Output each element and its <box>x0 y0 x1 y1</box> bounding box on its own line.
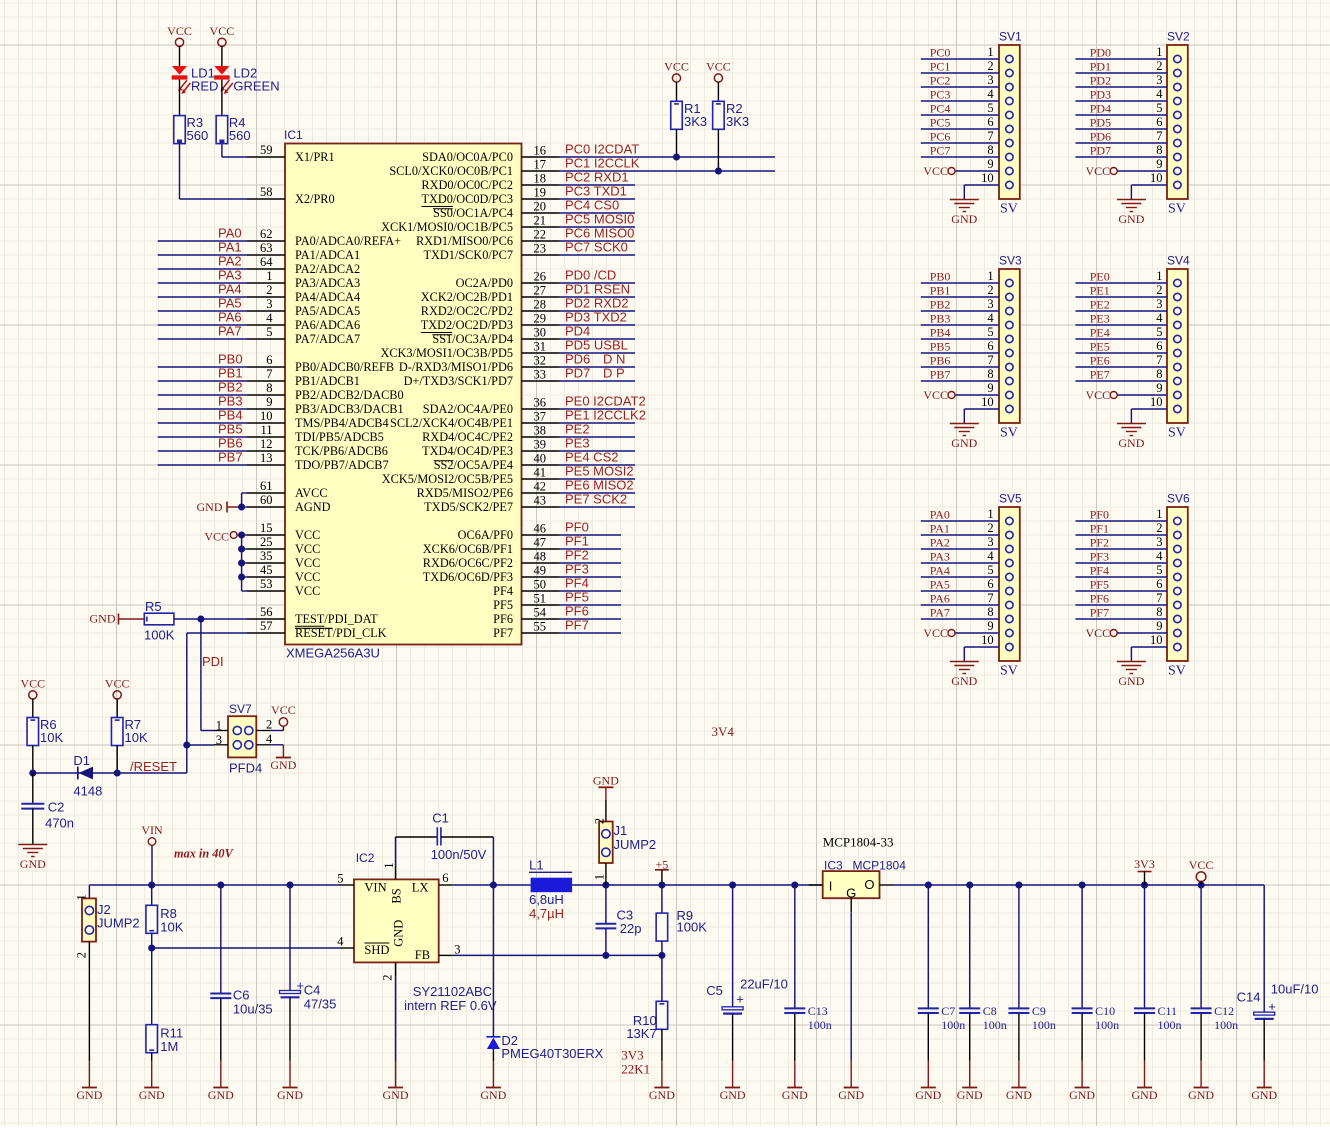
svg-text:GND: GND <box>1188 1088 1214 1102</box>
svg-text:2: 2 <box>266 283 272 297</box>
junction C10 <box>1079 881 1086 888</box>
junction R2/PC1 <box>715 167 722 174</box>
svg-text:10: 10 <box>1150 171 1163 185</box>
svg-text:8: 8 <box>987 605 993 619</box>
SV1 pin 4 PC3 <box>921 87 1013 105</box>
IC1 left pins and names <box>247 143 404 640</box>
svg-text:VIN: VIN <box>364 881 386 895</box>
svg-text:1: 1 <box>266 269 272 283</box>
svg-text:3: 3 <box>1156 297 1162 311</box>
svg-text:9: 9 <box>987 381 993 395</box>
svg-text:PC6 MISO0: PC6 MISO0 <box>565 226 634 241</box>
resistor R9 <box>656 885 707 955</box>
svg-text:PE3: PE3 <box>1090 312 1110 326</box>
svg-text:PD7: PD7 <box>1090 144 1111 158</box>
svg-text:3V4: 3V4 <box>712 724 735 739</box>
svg-text:PF5: PF5 <box>1090 578 1109 592</box>
svg-text:PA2: PA2 <box>218 254 242 269</box>
net label 3V4 <box>712 724 735 739</box>
svg-text:PB3: PB3 <box>930 312 951 326</box>
svg-text:3: 3 <box>1156 73 1162 87</box>
resistor R8 <box>146 885 184 948</box>
svg-text:5: 5 <box>1156 101 1162 115</box>
svg-text:PC3: PC3 <box>930 88 951 102</box>
svg-text:10: 10 <box>260 409 273 423</box>
svg-text:C5: C5 <box>706 983 723 998</box>
svg-text:GND: GND <box>1118 436 1144 450</box>
svg-text:22uF/10: 22uF/10 <box>740 977 788 992</box>
junction R6 reset <box>29 769 36 776</box>
SV2 pin 6 PD5 <box>1076 115 1182 133</box>
VCC supply R6 <box>20 677 45 718</box>
svg-text:3: 3 <box>987 535 993 549</box>
svg-text:GND: GND <box>139 1088 165 1102</box>
svg-text:PD2: PD2 <box>1090 74 1111 88</box>
svg-text:2: 2 <box>987 59 993 73</box>
svg-text:PF2: PF2 <box>1090 536 1109 550</box>
svg-text:100n: 100n <box>1158 1018 1182 1032</box>
VCC supply R7 <box>105 677 130 718</box>
svg-text:VCC: VCC <box>295 528 320 542</box>
SV1 pin 2 PC1 <box>921 59 1013 77</box>
svg-text:C6: C6 <box>233 988 250 1003</box>
svg-text:PF6: PF6 <box>493 612 513 626</box>
SV6 pin 8 PF7 <box>1076 605 1182 623</box>
svg-text:41: 41 <box>534 466 547 480</box>
svg-text:PE3: PE3 <box>565 436 590 451</box>
svg-text:PD6: PD6 <box>1090 130 1111 144</box>
ground C11 <box>1132 1088 1158 1103</box>
svg-text:SV: SV <box>1168 664 1186 679</box>
svg-text:3K3: 3K3 <box>684 114 707 129</box>
svg-text:10: 10 <box>981 633 994 647</box>
svg-text:SY21102ABC: SY21102ABC <box>413 984 492 999</box>
svg-text:1: 1 <box>1156 507 1162 521</box>
svg-text:PD0 /CD: PD0 /CD <box>565 268 616 283</box>
svg-text:D1: D1 <box>73 753 90 768</box>
SV2 pin 4 PD3 <box>1076 87 1182 105</box>
ground C13 <box>782 1088 808 1103</box>
svg-text:C2: C2 <box>48 800 65 815</box>
SV4 pin 8 PE7 <box>1076 367 1182 385</box>
svg-text:PA5/ADCA5: PA5/ADCA5 <box>295 304 360 318</box>
SV5 pin 6 PA5 <box>921 577 1013 595</box>
svg-text:36: 36 <box>534 396 547 410</box>
svg-text:40: 40 <box>534 452 547 466</box>
svg-text:1: 1 <box>216 719 222 733</box>
svg-text:3V3: 3V3 <box>621 1048 643 1063</box>
svg-text:GND: GND <box>649 1088 675 1102</box>
svg-text:PC1: PC1 <box>930 60 951 74</box>
svg-text:PC4 CS0: PC4 CS0 <box>565 198 619 213</box>
svg-text:47: 47 <box>534 536 547 550</box>
SV1 pin 6 PC5 <box>921 115 1013 133</box>
svg-text:33: 33 <box>534 368 547 382</box>
ground SV5 <box>950 662 979 689</box>
VCC supply SV6 <box>1086 619 1182 640</box>
svg-text:JUMP2: JUMP2 <box>97 916 140 931</box>
svg-text:GND: GND <box>951 436 977 450</box>
svg-text:PA0: PA0 <box>218 226 242 241</box>
svg-text:1: 1 <box>382 863 396 869</box>
IC1 refdes label <box>284 128 303 142</box>
svg-text:18: 18 <box>534 172 547 186</box>
svg-text:IC1: IC1 <box>284 128 303 142</box>
SV4 pin 4 PE3 <box>1076 311 1182 329</box>
svg-text:7: 7 <box>1156 591 1162 605</box>
svg-text:VCC: VCC <box>923 626 948 640</box>
svg-text:5: 5 <box>987 325 993 339</box>
svg-text:GND: GND <box>1069 1088 1095 1102</box>
svg-text:GND: GND <box>1118 212 1144 226</box>
svg-text:56: 56 <box>260 605 273 619</box>
svg-text:MCP1804-33: MCP1804-33 <box>823 835 894 850</box>
capacitor C14 10uF/10 <box>1237 885 1319 1088</box>
IC2 pin5 <box>337 872 354 886</box>
svg-text:10: 10 <box>1150 395 1163 409</box>
svg-text:GND: GND <box>593 774 619 788</box>
svg-text:PA6: PA6 <box>218 310 242 325</box>
svg-text:GND: GND <box>720 1088 746 1102</box>
svg-text:C8: C8 <box>983 1004 997 1018</box>
svg-text:62: 62 <box>260 227 273 241</box>
junction VIN/R8 <box>148 881 155 888</box>
svg-text:TXD5/SCK2/PE7: TXD5/SCK2/PE7 <box>424 500 513 514</box>
svg-text:PF5: PF5 <box>493 598 513 612</box>
svg-text:GND: GND <box>270 758 296 772</box>
svg-text:GND: GND <box>1251 1088 1277 1102</box>
svg-text:PA6: PA6 <box>930 592 950 606</box>
svg-text:8: 8 <box>266 381 272 395</box>
svg-text:SS1/OC3A/PD4: SS1/OC3A/PD4 <box>432 332 513 346</box>
capacitor C9 100n <box>1008 885 1056 1088</box>
junction R9/FB <box>658 952 665 959</box>
svg-text:PB2: PB2 <box>218 380 243 395</box>
resistor R10 <box>626 955 667 1087</box>
capacitor C13 100n <box>784 885 832 1088</box>
wire R4 to pin <box>222 144 247 157</box>
svg-text:SV6: SV6 <box>1167 492 1190 506</box>
IC1 XMEGA256A3U body <box>285 144 522 645</box>
svg-text:PE2: PE2 <box>565 422 590 437</box>
ground C14 <box>1251 1088 1277 1103</box>
svg-text:GND: GND <box>1006 1088 1032 1102</box>
ground R11 <box>139 1088 165 1103</box>
jumper J2 JUMP2 <box>74 894 139 1087</box>
TXD2 underline <box>421 332 452 334</box>
svg-text:max in 40V: max in 40V <box>174 847 235 861</box>
svg-text:SDA0/OC0A/PC0: SDA0/OC0A/PC0 <box>422 150 513 164</box>
svg-text:10K: 10K <box>40 730 63 745</box>
SS0 overline <box>433 208 453 210</box>
svg-text:1: 1 <box>75 894 89 900</box>
svg-text:21: 21 <box>534 214 547 228</box>
svg-text:30: 30 <box>534 326 547 340</box>
svg-text:PD2 RXD2: PD2 RXD2 <box>565 296 629 311</box>
PA/PB net wires and labels <box>158 226 247 466</box>
svg-text:4: 4 <box>266 311 273 325</box>
svg-text:PD4: PD4 <box>1090 102 1111 116</box>
svg-text:PE4 CS2: PE4 CS2 <box>565 450 618 465</box>
svg-text:GREEN: GREEN <box>233 79 279 94</box>
ground SV4 <box>1117 424 1146 451</box>
svg-text:PA4: PA4 <box>930 564 950 578</box>
svg-text:IC2: IC2 <box>356 851 375 865</box>
VCC supply SV7 <box>271 703 296 731</box>
svg-text:1: 1 <box>593 874 607 880</box>
svg-text:23: 23 <box>534 242 547 256</box>
VCC supply R2 <box>706 60 731 102</box>
svg-text:4: 4 <box>337 935 344 949</box>
svg-text:GND: GND <box>782 1088 808 1102</box>
3V3 supply <box>1134 857 1155 885</box>
svg-text:PB1/ADCB1: PB1/ADCB1 <box>295 374 360 388</box>
SV2 pin 1 PD0 <box>1076 45 1182 63</box>
svg-text:PA0: PA0 <box>930 508 950 522</box>
svg-text:VCC: VCC <box>1189 858 1214 872</box>
svg-text:PC6: PC6 <box>930 130 951 144</box>
svg-text:8: 8 <box>1156 143 1162 157</box>
svg-text:47/35: 47/35 <box>304 997 337 1012</box>
junction C12 <box>1198 881 1205 888</box>
resistor R5 <box>144 599 175 643</box>
svg-text:6: 6 <box>266 353 272 367</box>
svg-text:GND: GND <box>208 1088 234 1102</box>
IC3 name MCP1804-33 <box>823 835 894 850</box>
svg-text:4: 4 <box>1156 87 1163 101</box>
SV6 pin 3 PF2 <box>1076 535 1182 553</box>
svg-text:38: 38 <box>534 424 547 438</box>
junction R7 reset <box>114 769 121 776</box>
svg-text:20: 20 <box>534 200 547 214</box>
svg-text:RXD1/MISO0/PC6: RXD1/MISO0/PC6 <box>416 234 513 248</box>
junction L1/J1 <box>602 881 609 888</box>
IC2 pin2 GND <box>380 962 395 1087</box>
capacitor C2 470n <box>21 773 74 844</box>
svg-text:1: 1 <box>1156 269 1162 283</box>
connector SV5 <box>999 492 1022 679</box>
SV3 pin 4 PB3 <box>921 311 1013 329</box>
svg-text:GND: GND <box>392 920 406 947</box>
svg-text:GND: GND <box>76 1088 102 1102</box>
connector SV7 PFD4 <box>214 702 273 776</box>
svg-text:7: 7 <box>266 367 272 381</box>
svg-text:TDO/PB7/ADCB7: TDO/PB7/ADCB7 <box>295 458 389 472</box>
svg-text:C7: C7 <box>941 1004 955 1018</box>
ground R10 <box>649 1088 675 1103</box>
SV4 pin 7 PE6 <box>1076 353 1182 371</box>
junction TEST/PDI <box>197 615 204 622</box>
svg-text:GND: GND <box>20 857 46 871</box>
svg-text:PD3: PD3 <box>1090 88 1111 102</box>
svg-text:VCC: VCC <box>295 556 320 570</box>
svg-text:PE0: PE0 <box>1090 270 1110 284</box>
ground C9 <box>1006 1088 1032 1103</box>
svg-text:FB: FB <box>415 948 430 962</box>
svg-text:SCL2/XCK4/OC4B/PE1: SCL2/XCK4/OC4B/PE1 <box>390 416 513 430</box>
svg-text:8: 8 <box>1156 605 1162 619</box>
SV3 pin 5 PB4 <box>921 325 1013 343</box>
svg-text:XMEGA256A3U: XMEGA256A3U <box>286 646 380 661</box>
SV5 pin 2 PA1 <box>921 521 1013 539</box>
svg-text:8: 8 <box>1156 367 1162 381</box>
svg-text:PA1: PA1 <box>218 240 242 255</box>
svg-text:42: 42 <box>534 480 547 494</box>
svg-text:43: 43 <box>534 494 547 508</box>
svg-text:PA0/ADCA0/REFA+: PA0/ADCA0/REFA+ <box>295 234 401 248</box>
connector SV1 <box>999 30 1022 217</box>
svg-text:31: 31 <box>534 340 547 354</box>
svg-text:13: 13 <box>260 451 273 465</box>
svg-text:GND: GND <box>1132 1088 1158 1102</box>
RESET overline <box>295 627 333 629</box>
svg-text:2: 2 <box>266 718 272 732</box>
svg-text:PA7/ADCA7: PA7/ADCA7 <box>295 332 360 346</box>
svg-text:C10: C10 <box>1095 1004 1115 1018</box>
svg-text:VCC: VCC <box>923 388 948 402</box>
svg-text:6: 6 <box>442 871 448 885</box>
svg-text:50: 50 <box>534 578 547 592</box>
junction R1/PC0 <box>673 153 680 160</box>
svg-text:PF4: PF4 <box>1090 564 1109 578</box>
svg-text:2: 2 <box>987 521 993 535</box>
diode D2 PMEG40T30ERX <box>486 885 603 1088</box>
SV4 pin 10 wire <box>1131 395 1181 424</box>
capacitor C10 100n <box>1072 885 1120 1088</box>
SV2 pin 7 PD6 <box>1076 129 1182 147</box>
svg-text:SV5: SV5 <box>999 492 1022 506</box>
svg-text:PC3 TXD1: PC3 TXD1 <box>565 184 627 199</box>
svg-text:8: 8 <box>987 367 993 381</box>
junction C7 <box>925 881 932 888</box>
svg-text:PC5 MOSI0: PC5 MOSI0 <box>565 212 634 227</box>
ground D2 <box>480 1088 506 1103</box>
SV6 pin 2 PF1 <box>1076 521 1182 539</box>
svg-text:9: 9 <box>1156 157 1162 171</box>
svg-text:9: 9 <box>987 157 993 171</box>
IC1 value XMEGA256A3U <box>286 646 380 661</box>
svg-text:D-/RXD3/MISO1/PD6: D-/RXD3/MISO1/PD6 <box>399 360 513 374</box>
svg-text:59: 59 <box>260 143 273 157</box>
svg-text:XCK6/OC6B/PF1: XCK6/OC6B/PF1 <box>423 542 513 556</box>
svg-text:7: 7 <box>987 129 993 143</box>
svg-text:PB0: PB0 <box>930 270 951 284</box>
capacitor C6 10u/35 <box>210 885 272 1088</box>
ground SV2 <box>1117 200 1146 227</box>
svg-text:PF6: PF6 <box>565 604 589 619</box>
svg-text:32: 32 <box>534 354 547 368</box>
svg-text:GND: GND <box>277 1088 303 1102</box>
svg-text:PB3: PB3 <box>218 394 243 409</box>
svg-text:PA3/ADCA3: PA3/ADCA3 <box>295 276 360 290</box>
IC2 pin4 <box>337 935 354 949</box>
ground J1 <box>593 774 619 822</box>
connector SV4 <box>1167 254 1190 441</box>
svg-text:PE1: PE1 <box>1090 284 1110 298</box>
SV3 pin 8 PB7 <box>921 367 1013 385</box>
capacitor C8 100n <box>959 885 1007 1088</box>
svg-text:D N: D N <box>603 352 625 367</box>
svg-text:VCC: VCC <box>664 60 689 74</box>
resistor R1 <box>671 101 707 157</box>
svg-text:GND: GND <box>951 212 977 226</box>
svg-text:55: 55 <box>534 620 547 634</box>
SV1 pin 10 wire <box>964 171 1013 200</box>
svg-text:PF0: PF0 <box>1090 508 1109 522</box>
svg-text:PC0: PC0 <box>930 46 951 60</box>
svg-text:PF3: PF3 <box>565 562 589 577</box>
svg-text:PE4: PE4 <box>1090 326 1110 340</box>
svg-text:6: 6 <box>1156 577 1162 591</box>
svg-text:VCC: VCC <box>1086 626 1111 640</box>
svg-text:PA4/ADCA4: PA4/ADCA4 <box>295 290 360 304</box>
svg-text:PF5: PF5 <box>565 590 589 605</box>
svg-text:49: 49 <box>534 564 547 578</box>
svg-text:35: 35 <box>260 549 273 563</box>
svg-text:GND: GND <box>951 674 977 688</box>
ground C8 <box>957 1088 983 1103</box>
svg-text:PD5 USBL: PD5 USBL <box>565 338 628 353</box>
capacitor C3 22p <box>596 885 642 955</box>
svg-text:PB5: PB5 <box>218 422 243 437</box>
SV1 pin 3 PC2 <box>921 73 1013 91</box>
svg-text:+: + <box>736 992 744 1007</box>
SV6 pin 6 PF5 <box>1076 577 1182 595</box>
SV4 pin 5 PE4 <box>1076 325 1182 343</box>
svg-text:2: 2 <box>987 283 993 297</box>
junction C4 <box>286 881 293 888</box>
ground SV6 <box>1117 662 1146 689</box>
SV2 pin 3 PD2 <box>1076 73 1182 91</box>
svg-text:PB4: PB4 <box>218 408 243 423</box>
+5 supply <box>655 858 669 886</box>
svg-text:PB0: PB0 <box>218 352 243 367</box>
svg-text:58: 58 <box>260 185 273 199</box>
SV6 pin 10 wire <box>1131 633 1181 662</box>
junction C11 <box>1141 881 1148 888</box>
IC2 pin1 BS <box>382 863 396 880</box>
svg-text:22: 22 <box>534 228 547 242</box>
svg-text:PD5: PD5 <box>1090 116 1111 130</box>
svg-text:PB6: PB6 <box>218 436 243 451</box>
ground C12 <box>1188 1088 1214 1103</box>
svg-text:5: 5 <box>1156 325 1162 339</box>
SHD net wire <box>152 947 340 949</box>
SV5 pin 10 wire <box>964 633 1013 662</box>
svg-text:TXD2/OC2D/PD3: TXD2/OC2D/PD3 <box>421 318 513 332</box>
svg-text:6,8uH: 6,8uH <box>529 892 564 907</box>
IC3 input wire <box>809 884 823 886</box>
svg-text:SV7: SV7 <box>229 702 252 716</box>
svg-text:16: 16 <box>534 144 547 158</box>
svg-text:PB3/ADCB3/DACB1: PB3/ADCB3/DACB1 <box>295 402 404 416</box>
svg-text:I: I <box>829 879 833 894</box>
svg-text:PB7: PB7 <box>930 368 951 382</box>
svg-text:GND: GND <box>197 500 223 514</box>
svg-text:1M: 1M <box>160 1039 178 1054</box>
svg-text:PDI: PDI <box>202 654 224 669</box>
junction C13 <box>791 881 798 888</box>
svg-text:TXD0/OC0D/PC3: TXD0/OC0D/PC3 <box>421 192 513 206</box>
svg-text:PB2/ADCB2/DACB0: PB2/ADCB2/DACB0 <box>295 388 404 402</box>
svg-text:PC4: PC4 <box>930 102 951 116</box>
IC2 pin6 <box>439 871 453 885</box>
svg-text:RXD4/OC4C/PE2: RXD4/OC4C/PE2 <box>422 430 513 444</box>
junction +5 rail <box>658 881 665 888</box>
svg-text:LX: LX <box>412 881 429 895</box>
svg-text:6: 6 <box>987 115 993 129</box>
svg-text:100K: 100K <box>144 628 175 643</box>
